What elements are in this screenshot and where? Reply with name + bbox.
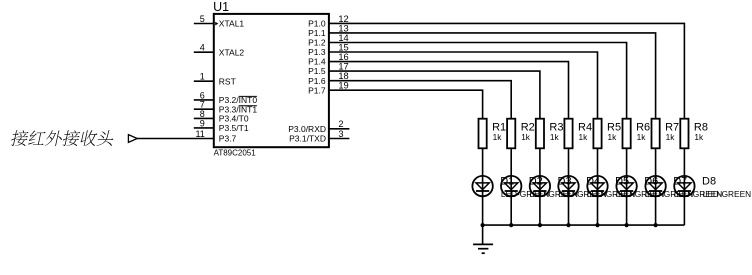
svg-text:19: 19 [338,81,348,91]
svg-text:11: 11 [195,129,204,139]
svg-text:D3: D3 [558,176,572,188]
svg-text:XTAL2: XTAL2 [219,47,245,57]
svg-text:D4: D4 [586,176,600,188]
svg-text:P3.4/T0: P3.4/T0 [219,114,249,124]
svg-text:P1.5: P1.5 [308,66,326,76]
svg-text:D8: D8 [702,176,716,188]
svg-text:4: 4 [200,43,205,53]
svg-text:1k: 1k [493,132,503,142]
svg-text:U1: U1 [213,0,229,14]
svg-text:1: 1 [200,72,205,82]
svg-text:12: 12 [338,14,348,24]
svg-text:16: 16 [338,52,348,62]
svg-text:D6: D6 [644,176,658,188]
svg-text:P1.4: P1.4 [308,57,326,67]
svg-text:P1.2: P1.2 [308,38,326,48]
svg-text:1k: 1k [608,132,618,142]
svg-text:AT89C2051: AT89C2051 [214,148,257,157]
svg-text:1k: 1k [637,132,647,142]
svg-text:1k: 1k [579,132,589,142]
svg-text:P1.6: P1.6 [308,76,326,86]
svg-text:2: 2 [338,119,343,129]
svg-text:9: 9 [200,118,205,128]
svg-text:XTAL1: XTAL1 [219,19,245,29]
svg-text:RST: RST [219,76,236,86]
svg-text:D1: D1 [500,176,514,188]
svg-text:P3.1/TXD: P3.1/TXD [289,134,326,144]
svg-text:17: 17 [338,62,348,72]
svg-text:1k: 1k [521,132,531,142]
svg-text:D5: D5 [615,176,629,188]
svg-text:D2: D2 [529,176,543,188]
svg-text:P3.0/RXD: P3.0/RXD [288,124,326,134]
svg-text:18: 18 [338,71,348,81]
svg-text:1k: 1k [694,132,704,142]
svg-text:P1.1: P1.1 [308,28,326,38]
svg-text:5: 5 [200,14,205,24]
svg-text:LED-GREEN: LED-GREEN [703,189,751,199]
svg-text:P1.3: P1.3 [308,47,326,57]
svg-text:15: 15 [338,42,348,52]
svg-text:3: 3 [338,129,343,139]
svg-text:P3.7: P3.7 [219,134,237,144]
svg-text:14: 14 [338,33,348,43]
svg-text:1k: 1k [550,132,560,142]
svg-text:1k: 1k [666,132,676,142]
svg-text:13: 13 [338,23,348,33]
svg-text:8: 8 [200,109,205,119]
svg-text:P1.7: P1.7 [308,85,326,95]
svg-text:D7: D7 [673,176,687,188]
svg-text:P3.5/T1: P3.5/T1 [219,123,249,133]
svg-text:P1.0: P1.0 [308,19,326,29]
